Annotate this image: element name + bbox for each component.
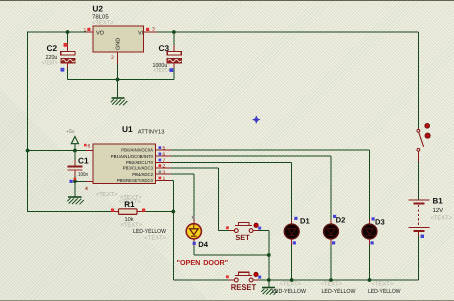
wire right rail down to switch	[417, 32, 419, 128]
node C1 bottom / pin4 / ground	[73, 179, 77, 183]
U1 pin 1 stub	[156, 179, 172, 181]
LED D2 (off, dark)	[321, 215, 356, 295]
wire battery bottom down to ground rail corner	[417, 236, 419, 280]
svg-text:+5v: +5v	[66, 129, 75, 135]
LED D1 (off, dark)	[272, 217, 310, 295]
wire 12V input net: U2 VI to right rail	[157, 31, 418, 33]
svg-text:LED-YELLOW: LED-YELLOW	[133, 228, 166, 235]
pin number 1	[159, 177, 162, 180]
pin number 6	[159, 153, 162, 156]
svg-text:<TEXT>: <TEXT>	[321, 282, 343, 288]
wire R1 right to pin1 net node	[146, 211, 174, 213]
pin number 5	[159, 146, 162, 149]
node ground rail at RESET output	[267, 278, 271, 282]
svg-text:5: 5	[163, 146, 166, 152]
node power arrow / C1 / pin8	[73, 149, 77, 153]
capacitor C1 100n	[68, 155, 89, 183]
svg-text:PB5/RESET/ADC0: PB5/RESET/ADC0	[117, 178, 154, 183]
svg-text:<TEXT>: <TEXT>	[92, 20, 114, 26]
wire SET output vertical down to D4 node	[268, 231, 270, 280]
svg-text:C3: C3	[159, 43, 170, 53]
svg-text:3: 3	[152, 27, 155, 33]
pin number 8	[84, 144, 87, 147]
wire D4 cathode to SET/ground column	[194, 254, 269, 256]
svg-text:<TEXT>: <TEXT>	[372, 282, 394, 288]
svg-text:2: 2	[163, 164, 166, 170]
wire C1 ground lead	[74, 181, 76, 196]
svg-text:D1: D1	[300, 217, 310, 226]
wire C3 bottom lead	[173, 68, 175, 80]
capacitor C2 220u electrolytic	[42, 43, 75, 72]
wire switch to battery top	[417, 162, 419, 201]
U1 pin 6 stub	[156, 155, 172, 157]
wire pin3 vertical down to D4 anode	[193, 174, 195, 218]
wire node to U1 GND pin 4	[75, 180, 86, 182]
top window edge line	[0, 0, 454, 1]
svg-text:U2: U2	[92, 4, 103, 14]
svg-text:VO: VO	[96, 31, 105, 37]
node C3 top on 12V wire	[172, 30, 176, 34]
svg-text:<TEXT>: <TEXT>	[42, 61, 58, 67]
bottom window edge line	[0, 300, 454, 301]
wire C2 top lead	[67, 32, 69, 46]
pin number 3	[159, 171, 162, 174]
svg-text:4: 4	[85, 186, 88, 192]
LED D4 yellow (lit)	[133, 216, 209, 249]
node C2 top on +5V wire	[66, 30, 70, 34]
svg-text:U1: U1	[122, 124, 133, 134]
svg-text:1: 1	[163, 176, 166, 182]
switch SW on 12V rail	[417, 123, 430, 161]
battery B1 12V	[409, 197, 453, 238]
node D1 cathode on rail	[290, 278, 294, 282]
wire U1 pin2 PB3 horizontal	[171, 167, 219, 169]
svg-text:78L05: 78L05	[92, 13, 109, 20]
svg-text:PB3/CLK/ADC3: PB3/CLK/ADC3	[123, 166, 154, 171]
svg-text:B1: B1	[433, 197, 444, 206]
voltage regulator U2 78L05	[84, 4, 158, 64]
svg-text:ATTINY13: ATTINY13	[138, 129, 165, 136]
svg-text:PB2/ADC1/T0: PB2/ADC1/T0	[126, 160, 154, 165]
svg-text:2: 2	[111, 55, 114, 61]
wire to SET left contact	[219, 230, 229, 232]
push button SET	[226, 222, 261, 242]
wire D1 column vertical	[291, 162, 293, 219]
svg-text:<TEXT>: <TEXT>	[431, 216, 453, 222]
wire +5V branch to U1 VCC pin 8	[28, 150, 86, 152]
origin marker (blue compass)	[253, 116, 261, 124]
wire U1 pin5 PB0 to D3 column	[171, 149, 370, 151]
wire D1 cathode lead down to rail	[291, 245, 293, 280]
power terminal +5v arrow	[66, 129, 79, 144]
U1 pin 3 stub	[156, 173, 172, 175]
wire ground rail stub to bottom ground symbol	[268, 280, 270, 287]
wire +5V net: top horizontal from left corner to U2 VO pin	[28, 31, 87, 33]
wire pin1 vertical down through R1 node to RESET row	[172, 180, 174, 280]
svg-text:1: 1	[84, 28, 87, 34]
wire D2 column vertical	[330, 156, 332, 219]
pin number 2	[159, 164, 162, 167]
node +5V branch on left rail	[26, 149, 30, 153]
svg-text:100n: 100n	[78, 172, 88, 178]
capacitor C3 1000u electrolytic	[153, 43, 182, 74]
wire ground node to ground symbol under U2	[117, 80, 119, 98]
svg-text:PB1/AIN1/OC0B/INT0: PB1/AIN1/OC0B/INT0	[111, 154, 154, 159]
wire pin1 net to RESET left contact	[173, 279, 228, 281]
push button RESET	[226, 272, 261, 292]
svg-text:VI: VI	[138, 31, 144, 37]
wire SET right contact to down corner	[259, 230, 269, 232]
svg-text:LED-YELLOW: LED-YELLOW	[272, 288, 306, 295]
svg-text:C1: C1	[78, 155, 89, 165]
wire U1 pin1 PB5 horizontal	[171, 179, 173, 181]
ground symbol on bottom rail	[261, 288, 278, 295]
wire C2 bottom lead	[67, 68, 69, 80]
wire +5V to R1 left	[28, 211, 111, 213]
svg-text:8: 8	[88, 144, 91, 150]
svg-text:D4: D4	[198, 240, 208, 249]
SET toggle indicator	[254, 223, 258, 227]
svg-text:PB0/AIN0/OC0A: PB0/AIN0/OC0A	[121, 148, 153, 153]
LED D3 (off, dark)	[362, 217, 401, 295]
wire pin2 vertical down to SET	[218, 168, 220, 231]
svg-text:"OPEN: "OPEN	[177, 258, 201, 267]
ground symbol under U2	[111, 98, 128, 105]
wire U1 pin6 PB1 to D2 column	[171, 155, 331, 157]
svg-text:6: 6	[163, 152, 166, 158]
resistor R1 10k	[111, 195, 146, 229]
switch toggle indicators	[425, 123, 430, 128]
node D2 cathode on rail	[329, 278, 333, 282]
svg-text:<TEXT>: <TEXT>	[144, 236, 166, 242]
svg-text:GND: GND	[116, 38, 122, 50]
svg-text:LED-YELLOW: LED-YELLOW	[322, 288, 356, 295]
wire D3 column vertical	[369, 150, 371, 219]
wire U2 GND pin to ground node	[117, 64, 119, 80]
RESET toggle indicator	[254, 272, 258, 276]
svg-text:D2: D2	[336, 215, 346, 224]
svg-text:<TEXT>: <TEXT>	[120, 195, 142, 201]
wire power arrow lead down to node	[74, 144, 76, 151]
wire RESET right contact to ground rail	[259, 279, 419, 281]
wire D2 cathode lead down to rail	[330, 245, 332, 280]
wire C1 bottom lead to GND pin4 node	[74, 176, 76, 181]
svg-text:DOOR": DOOR"	[203, 258, 228, 267]
node D3 cathode on rail	[368, 278, 372, 282]
U1 pin 7 stub	[156, 161, 172, 163]
node R1 right / pin1 rail	[171, 210, 175, 214]
svg-text:<TEXT>: <TEXT>	[280, 282, 302, 288]
svg-text:C2: C2	[47, 43, 58, 53]
wire +5V net: left vertical rail	[27, 32, 29, 213]
U1 pin 2 stub	[156, 167, 172, 169]
node D4 cathode / SET output	[267, 253, 271, 257]
ground symbol under C1	[67, 197, 84, 204]
wire C3 top lead	[173, 32, 175, 46]
svg-text:12V: 12V	[433, 207, 444, 214]
svg-text:<TEXT>: <TEXT>	[96, 192, 118, 198]
wire D3 cathode lead down to rail	[369, 245, 371, 280]
svg-text:PB4/ADC2: PB4/ADC2	[132, 172, 153, 177]
U1 pin 4 GND stub	[86, 180, 93, 182]
wire U1 pin3 PB4 horizontal	[171, 173, 194, 175]
svg-text:<TEXT>: <TEXT>	[121, 223, 143, 229]
svg-text:SET: SET	[235, 233, 250, 242]
wire C1 top lead	[74, 151, 76, 161]
svg-text:3: 3	[163, 170, 166, 176]
wire U1 pin7 PB2 to D1 column	[171, 161, 292, 163]
svg-text:<TEXT>: <TEXT>	[154, 68, 170, 74]
wire ground bus C2 to C3 under U2	[68, 79, 174, 81]
svg-text:RESET: RESET	[231, 282, 257, 292]
node ground bus under U2	[116, 78, 120, 82]
svg-text:R1: R1	[124, 200, 135, 209]
microcontroller U1 ATTINY13	[84, 124, 171, 206]
pin number 7	[159, 159, 162, 162]
wire D4 cathode down	[193, 246, 195, 256]
U1 pin 8 VCC stub	[86, 150, 93, 152]
svg-text:D3: D3	[375, 218, 385, 227]
U1 pin 5 stub	[156, 149, 172, 151]
svg-text:LED-YELLOW: LED-YELLOW	[368, 288, 401, 295]
